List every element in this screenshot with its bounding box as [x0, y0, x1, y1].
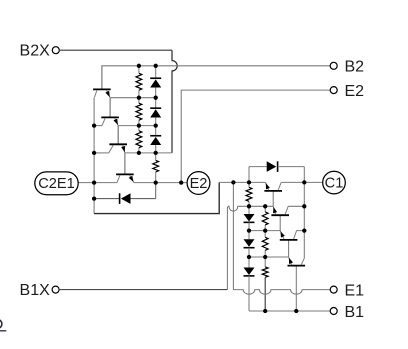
- svg-text:B1X: B1X: [20, 282, 51, 299]
- svg-text:E1: E1: [345, 282, 365, 299]
- svg-text:B1: B1: [345, 304, 365, 321]
- svg-text:E2: E2: [345, 83, 365, 100]
- svg-text:B2X: B2X: [20, 43, 51, 60]
- svg-text:C1: C1: [325, 176, 344, 192]
- svg-text:C2E1: C2E1: [38, 176, 75, 192]
- svg-text:E2: E2: [190, 176, 208, 192]
- svg-text:B2: B2: [345, 59, 365, 76]
